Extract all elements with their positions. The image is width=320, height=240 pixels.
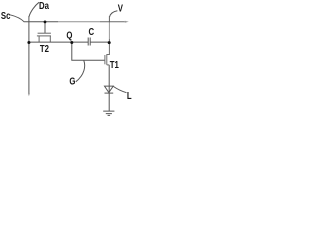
svg-text:Q: Q: [66, 29, 72, 40]
svg-text:V: V: [118, 3, 123, 14]
svg-text:T2: T2: [40, 43, 49, 54]
svg-text:L: L: [127, 90, 132, 101]
svg-text:C: C: [89, 26, 95, 37]
svg-text:Sc: Sc: [1, 10, 11, 21]
svg-text:G: G: [69, 75, 75, 86]
svg-text:Da: Da: [39, 0, 50, 11]
svg-text:T1: T1: [110, 59, 119, 70]
